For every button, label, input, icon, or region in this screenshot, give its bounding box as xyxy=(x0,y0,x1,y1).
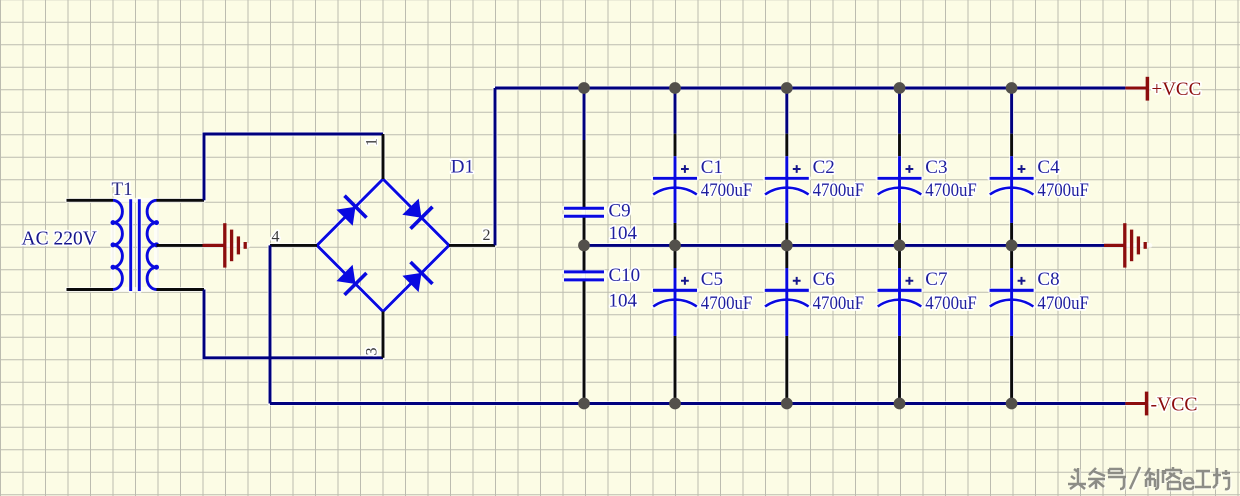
svg-text:104: 104 xyxy=(609,223,638,244)
junction node (mid bus, x=899) xyxy=(894,240,906,252)
junction node (top bus, x=675) xyxy=(669,82,681,94)
svg-text:C5: C5 xyxy=(701,269,723,290)
plus mark C8 xyxy=(1018,277,1026,285)
svg-text:4700uF: 4700uF xyxy=(813,293,865,314)
svg-text:3: 3 xyxy=(364,348,381,356)
svg-text:C2: C2 xyxy=(813,157,835,178)
wire: bottom -V bus xyxy=(270,402,1125,405)
wire: column C2/C6 xyxy=(785,88,788,404)
ground (transformer center tap) xyxy=(203,223,246,267)
svg-text:104: 104 xyxy=(609,290,638,311)
svg-text:C8: C8 xyxy=(1037,269,1059,290)
junction node (bottom bus, x=1011) xyxy=(1006,398,1018,410)
wire: bridge pin4 down to -V rail xyxy=(269,245,272,403)
svg-text:C4: C4 xyxy=(1037,157,1060,178)
plus mark C3 xyxy=(906,165,914,173)
junction node (top bus, x=786) xyxy=(781,82,793,94)
junction node (mid bus, x=584) xyxy=(578,240,590,252)
capacitor C10 xyxy=(564,245,604,403)
junction node (bottom bus, x=584) xyxy=(578,398,590,410)
capacitor C7 xyxy=(878,268,922,336)
plus mark C4 xyxy=(1018,165,1026,173)
capacitor C1 xyxy=(653,156,697,223)
svg-text:AC 220V: AC 220V xyxy=(22,229,97,250)
wire: secondary top to bridge pin1 xyxy=(204,134,383,200)
capacitor C2 xyxy=(765,156,809,223)
bridge rectifier D1 xyxy=(270,134,495,358)
power port +VCC xyxy=(1125,77,1147,101)
wire: bridge pin2 up to +V rail xyxy=(494,88,497,245)
svg-text:4700uF: 4700uF xyxy=(925,180,977,201)
wire: column C3/C7 xyxy=(898,88,901,404)
svg-text:4700uF: 4700uF xyxy=(813,180,865,201)
wire: C9 column from +V bus xyxy=(583,88,586,140)
wire: column C1/C5 xyxy=(674,88,677,404)
svg-text:4700uF: 4700uF xyxy=(1037,293,1089,314)
junction node (bottom bus, x=899) xyxy=(894,398,906,410)
capacitor C3 xyxy=(878,156,922,223)
capacitor C8 xyxy=(990,268,1034,336)
junction node (top bus, x=584) xyxy=(578,82,590,94)
svg-text:C7: C7 xyxy=(925,269,947,290)
svg-text:C1: C1 xyxy=(701,157,723,178)
capacitor C9 xyxy=(564,140,604,245)
plus mark C1 xyxy=(681,165,689,173)
svg-text:4700uF: 4700uF xyxy=(925,293,977,314)
svg-text:D1: D1 xyxy=(451,156,474,177)
capacitor C5 xyxy=(653,268,697,336)
svg-text:C6: C6 xyxy=(813,269,835,290)
junction node (mid bus, x=1011) xyxy=(1006,240,1018,252)
plus mark C2 xyxy=(793,165,801,173)
svg-text:4700uF: 4700uF xyxy=(1037,180,1089,201)
junction node (mid bus, x=675) xyxy=(669,240,681,252)
junction node (mid bus, x=786) xyxy=(781,240,793,252)
wire: top +V bus xyxy=(495,87,1125,90)
svg-text:4700uF: 4700uF xyxy=(701,293,753,314)
wire: middle ground bus xyxy=(584,244,1104,247)
power port -VCC xyxy=(1125,392,1146,416)
svg-text:2: 2 xyxy=(483,227,491,244)
junction node (bottom bus, x=675) xyxy=(669,398,681,410)
transformer T1 xyxy=(113,199,157,291)
svg-text:4700uF: 4700uF xyxy=(701,180,753,201)
svg-text:+VCC: +VCC xyxy=(1152,79,1202,100)
junction node (top bus, x=899) xyxy=(894,82,906,94)
wire: column C4/C8 xyxy=(1010,88,1013,404)
capacitor C4 xyxy=(990,156,1034,223)
svg-text:1: 1 xyxy=(364,138,381,146)
svg-text:-VCC: -VCC xyxy=(1151,394,1198,415)
watermark 头条号 / 创客e工坊 xyxy=(1069,468,1231,490)
svg-text:C10: C10 xyxy=(609,265,641,286)
plus mark C5 xyxy=(681,277,689,285)
svg-text:T1: T1 xyxy=(112,179,133,200)
svg-text:C9: C9 xyxy=(609,201,631,222)
junction node (top bus, x=1011) xyxy=(1006,82,1018,94)
capacitor C6 xyxy=(765,268,809,336)
plus mark C7 xyxy=(906,277,914,285)
svg-text:C3: C3 xyxy=(925,157,947,178)
ground (right, mid bus) xyxy=(1104,223,1145,267)
wire: secondary bottom to bridge pin3 xyxy=(204,290,383,358)
plus mark C6 xyxy=(793,277,801,285)
svg-text:4: 4 xyxy=(272,229,280,246)
junction node (bottom bus, x=786) xyxy=(781,398,793,410)
